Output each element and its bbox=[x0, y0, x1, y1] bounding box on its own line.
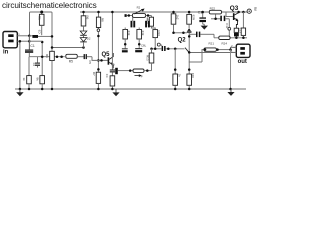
transistor Q4 diag bbox=[185, 48, 189, 53]
svg-text:C1: C1 bbox=[30, 44, 34, 48]
svg-text:R7: R7 bbox=[92, 72, 96, 76]
svg-text:D2: D2 bbox=[87, 37, 91, 41]
capacitor C5 bbox=[84, 54, 92, 64]
svg-text:1k: 1k bbox=[22, 78, 26, 82]
wire mid horizontal y48.8 bbox=[152, 48, 162, 50]
svg-text:R2: R2 bbox=[137, 6, 141, 10]
svg-text:100: 100 bbox=[191, 73, 195, 78]
R5 horizontal bbox=[60, 54, 83, 63]
resistor R4 bottom-left2 bbox=[35, 41, 44, 91]
resistor R15 bottom bbox=[173, 74, 182, 91]
trimmer P1 horizontal bbox=[133, 69, 152, 78]
wire in ground drop bbox=[19, 41, 21, 89]
capacitor C13 electrolytic bbox=[234, 28, 242, 38]
resistor R11 bbox=[122, 28, 131, 53]
svg-text:Q2: Q2 bbox=[178, 37, 187, 43]
svg-text:Q3: Q3 bbox=[230, 5, 239, 12]
wire bottom ground rail bbox=[15, 88, 246, 90]
wire y37.8 bbox=[214, 37, 247, 39]
capacitor C6 electrolytic bbox=[115, 68, 133, 74]
node circle bbox=[157, 43, 160, 46]
resistor R8 top col x98.5 bbox=[96, 11, 104, 28]
resistor R10 bbox=[153, 30, 161, 49]
diode D2 bbox=[80, 35, 91, 47]
resistor R25 rail drop bbox=[241, 11, 245, 39]
svg-text:R1: R1 bbox=[38, 16, 42, 20]
svg-text:R3: R3 bbox=[45, 54, 49, 58]
ground G2 bbox=[115, 89, 117, 93]
svg-text:1k2: 1k2 bbox=[176, 15, 180, 20]
capacitor C10 bbox=[189, 32, 214, 38]
wire diode feed bbox=[52, 47, 84, 49]
svg-text:C5: C5 bbox=[88, 60, 92, 64]
resistor R9 bbox=[110, 76, 115, 90]
power terminal bbox=[247, 7, 257, 13]
svg-text:24k: 24k bbox=[127, 31, 131, 36]
svg-text:R5: R5 bbox=[69, 59, 73, 63]
connector J2 out bbox=[231, 44, 250, 57]
capacitor C1 bbox=[25, 36, 35, 57]
wire y49.6 to out bbox=[202, 50, 204, 62]
capacitor C11 bbox=[198, 10, 206, 25]
resistor R3 bbox=[45, 51, 54, 90]
capacitor C12 series bbox=[211, 15, 229, 29]
svg-text:1k: 1k bbox=[177, 74, 181, 78]
capacitor C4 bbox=[105, 70, 115, 78]
node bbox=[19, 40, 22, 43]
svg-text:in: in bbox=[3, 49, 9, 55]
wire col x112.4 from rail bbox=[111, 12, 113, 70]
svg-text:circuitschematicelectronics: circuitschematicelectronics bbox=[2, 1, 97, 10]
wire out gnd drop bbox=[230, 50, 232, 89]
svg-text:9V: 9V bbox=[253, 7, 257, 12]
capacitor C7 electrolytic bbox=[131, 17, 136, 27]
svg-text:R6: R6 bbox=[86, 16, 90, 20]
resistor R21 inline bbox=[204, 48, 216, 51]
capacitor C9 bbox=[29, 29, 52, 38]
wire y52.5 to out lower bbox=[189, 52, 237, 54]
wire to Q1 base bbox=[92, 57, 108, 61]
resistor R18 bottom bbox=[187, 73, 195, 90]
capacitor C2 bbox=[32, 55, 58, 67]
svg-text:R21: R21 bbox=[209, 41, 215, 45]
diode D1 bbox=[80, 31, 87, 35]
svg-text:R10: R10 bbox=[157, 31, 161, 37]
svg-text:R22: R22 bbox=[210, 6, 216, 10]
wire signal line bbox=[29, 56, 65, 58]
transistor Q2 bbox=[172, 28, 191, 74]
ground G3 bbox=[230, 89, 232, 92]
svg-text:P: P bbox=[141, 74, 143, 78]
transistor Q1 bbox=[108, 53, 116, 68]
svg-text:C9: C9 bbox=[38, 29, 42, 33]
resistor R6 top bbox=[81, 11, 89, 32]
svg-text:8k: 8k bbox=[35, 78, 39, 82]
ground G1 bbox=[19, 89, 21, 93]
transistor Q3 bbox=[226, 11, 240, 28]
wire top rail bbox=[30, 12, 53, 49]
svg-text:R13: R13 bbox=[145, 55, 149, 61]
svg-text:R8: R8 bbox=[100, 18, 104, 22]
capacitor C8 electrolytic bbox=[145, 17, 150, 27]
potentiometer P2 top bbox=[125, 6, 152, 18]
node circle tap bbox=[228, 27, 231, 30]
resistor R12 bbox=[135, 28, 146, 53]
wire lower in line to R4 bbox=[29, 40, 42, 42]
resistor R19 mid bbox=[145, 16, 155, 30]
svg-text:C2: C2 bbox=[32, 63, 36, 67]
resistor R22 inline rail bbox=[209, 6, 221, 14]
svg-text:out: out bbox=[238, 59, 247, 65]
resistor R13 bbox=[145, 49, 153, 71]
resistor R14 top bbox=[171, 11, 180, 74]
resistor R2 bottom-left bbox=[22, 57, 31, 91]
node in+ bbox=[28, 35, 31, 38]
resistor R7 col x98.4 bbox=[92, 28, 100, 91]
svg-text:C8L: C8L bbox=[141, 43, 147, 47]
resistor R24 inline bbox=[219, 36, 230, 39]
resistor R1 bbox=[38, 11, 44, 36]
svg-text:24k: 24k bbox=[141, 31, 145, 36]
ground G4 bbox=[201, 26, 208, 30]
capacitor C7b series bbox=[162, 46, 164, 51]
svg-text:82R: 82R bbox=[191, 15, 195, 21]
wire supply drop x52 bbox=[51, 13, 53, 51]
connector J1 in bbox=[3, 32, 29, 48]
resistor R16 top bbox=[187, 11, 196, 28]
svg-text:R24: R24 bbox=[222, 41, 228, 45]
svg-text:C4: C4 bbox=[105, 74, 109, 78]
